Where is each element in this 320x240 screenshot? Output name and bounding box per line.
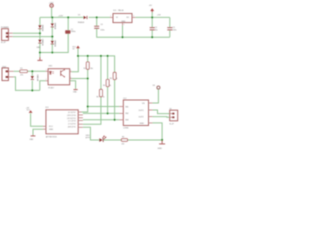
svg-text:IN3: IN3 xyxy=(126,120,129,122)
svg-text:4: 4 xyxy=(70,70,71,72)
svg-text:VCC: VCC xyxy=(49,126,54,128)
svg-text:OUT2: OUT2 xyxy=(139,116,144,118)
svg-text:IC2: IC2 xyxy=(123,98,126,100)
svg-text:1: 1 xyxy=(110,16,111,18)
svg-text:R2: R2 xyxy=(84,68,86,70)
svg-text:green: green xyxy=(86,136,90,139)
svg-text:KL-2P: KL-2P xyxy=(169,123,173,125)
svg-text:PC817: PC817 xyxy=(48,88,54,90)
svg-text:L293D: L293D xyxy=(123,127,129,129)
svg-text:IN1: IN1 xyxy=(126,106,129,108)
svg-text:78L05: 78L05 xyxy=(118,10,125,12)
svg-text:10u: 10u xyxy=(155,30,158,32)
svg-text:100n: 100n xyxy=(100,29,104,31)
svg-text:3: 3 xyxy=(70,77,71,79)
svg-text:1N4004: 1N4004 xyxy=(54,23,56,30)
svg-text:+12V: +12V xyxy=(58,16,64,18)
svg-text:R1: R1 xyxy=(20,68,22,70)
svg-text:(MISO)PB6: (MISO)PB6 xyxy=(67,115,76,117)
svg-text:(AIN1)PB1: (AIN1)PB1 xyxy=(68,126,76,129)
svg-text:1: 1 xyxy=(46,70,47,72)
svg-text:(SCK)PB7: (SCK)PB7 xyxy=(68,112,76,114)
svg-text:100n: 100n xyxy=(172,30,176,32)
svg-text:R5: R5 xyxy=(97,97,99,99)
svg-text:X3: X3 xyxy=(169,109,171,111)
svg-text:GND: GND xyxy=(158,148,163,150)
svg-text:2: 2 xyxy=(46,79,47,81)
svg-text:1k: 1k xyxy=(116,78,118,80)
svg-text:POWER: POWER xyxy=(1,27,9,29)
svg-text:R6: R6 xyxy=(122,137,124,139)
svg-text:1N4148: 1N4148 xyxy=(36,74,38,81)
svg-text:1k: 1k xyxy=(109,85,111,87)
svg-text:IN2: IN2 xyxy=(126,113,129,115)
svg-text:(MOSI)PB5: (MOSI)PB5 xyxy=(67,118,76,120)
svg-text:1N4004: 1N4004 xyxy=(41,25,43,32)
svg-text:D1: D1 xyxy=(78,15,80,17)
svg-text:(OC0)PB2: (OC0)PB2 xyxy=(68,124,76,126)
svg-text:OUT1: OUT1 xyxy=(139,110,144,112)
svg-text:(OC1)PB3: (OC1)PB3 xyxy=(68,121,76,123)
svg-text:ATTINY2313: ATTINY2313 xyxy=(46,135,57,138)
svg-text:1N4004: 1N4004 xyxy=(78,22,85,24)
svg-text:+12V: +12V xyxy=(49,3,54,5)
svg-text:47k: 47k xyxy=(20,74,23,76)
svg-text:GND: GND xyxy=(140,123,145,125)
svg-text:2200u: 2200u xyxy=(71,31,76,33)
svg-text:+5V: +5V xyxy=(157,15,161,17)
svg-text:IC3: IC3 xyxy=(45,107,48,109)
svg-text:OK1: OK1 xyxy=(48,66,52,68)
svg-text:C4: C4 xyxy=(100,24,102,26)
svg-text:1N4004: 1N4004 xyxy=(54,40,56,47)
svg-text:R4: R4 xyxy=(103,85,105,87)
svg-text:GND: GND xyxy=(121,21,126,23)
svg-text:GND: GND xyxy=(49,129,54,131)
svg-text:R3: R3 xyxy=(110,78,112,80)
svg-text:1k: 1k xyxy=(103,97,105,99)
svg-text:220: 220 xyxy=(121,143,124,145)
svg-text:10k: 10k xyxy=(90,68,93,70)
svg-text:1N4004: 1N4004 xyxy=(41,39,43,46)
